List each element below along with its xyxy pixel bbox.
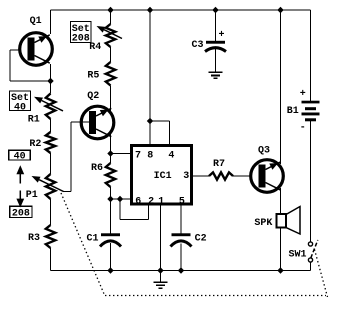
svg-text:IC1: IC1 xyxy=(154,171,172,182)
wire C3 to ground xyxy=(215,49,217,72)
resistor R3 xyxy=(46,225,55,248)
wire R7 to Q3 base xyxy=(233,175,259,177)
wire Q3 emitter to top rail xyxy=(280,10,282,164)
resistor R7 xyxy=(209,172,233,179)
svg-text:SW1: SW1 xyxy=(288,249,306,260)
svg-text:P1: P1 xyxy=(26,190,38,201)
capacitor C2 plate xyxy=(172,233,191,236)
wire R2-P1 link xyxy=(50,153,52,174)
wire top rail to R4 xyxy=(110,10,112,24)
wire IC1 pin 2 across xyxy=(120,219,149,221)
wire C2 to bottom rail xyxy=(180,244,182,271)
box 40 xyxy=(9,150,31,160)
svg-text:SPK: SPK xyxy=(254,218,272,229)
wire Q1 base feedback to node xyxy=(10,80,51,82)
wire IC1 pin 4 jog xyxy=(150,120,170,122)
capacitor C2 curved plate xyxy=(171,241,192,247)
junction node top rail / Q3 xyxy=(277,7,283,13)
potentiometer P1 xyxy=(46,174,55,199)
svg-text:4: 4 xyxy=(168,151,174,162)
dotted link horizontal xyxy=(105,295,326,297)
wire IC1 pin 4 up xyxy=(169,121,171,145)
svg-text:208: 208 xyxy=(72,34,90,45)
capacitor C3 curved plate xyxy=(205,48,226,52)
dotted link SW1 to case xyxy=(315,250,328,298)
wire IC1 pin 5 to C2 xyxy=(180,204,182,234)
junction node top rail / pin8 xyxy=(147,7,153,13)
svg-text:R1: R1 xyxy=(28,115,40,126)
svg-text:R5: R5 xyxy=(87,71,99,82)
wire R3 to bottom rail xyxy=(50,248,52,271)
wire IC1 pin 2 down xyxy=(119,199,121,220)
box Set 208 xyxy=(71,22,92,43)
svg-text:Q1: Q1 xyxy=(30,16,42,27)
wire SPK to bottom rail xyxy=(280,228,282,271)
svg-text:C1: C1 xyxy=(86,233,98,244)
wire Q3 collector to SPK xyxy=(280,188,282,215)
wire IC1 pin 2 up xyxy=(148,204,150,220)
svg-text:B1: B1 xyxy=(287,106,299,117)
svg-text:2: 2 xyxy=(148,196,154,207)
speaker SPK body xyxy=(277,214,287,228)
P1 wiper arrow xyxy=(39,180,63,192)
junction node Q2 collector / pin7 xyxy=(107,150,113,156)
junction node top rail / C3 xyxy=(212,7,218,13)
svg-text:R4: R4 xyxy=(89,42,101,53)
junction node pin8 / pin4 xyxy=(147,118,153,124)
wire right rail upper (to battery +) xyxy=(310,10,312,102)
box Set 40 xyxy=(10,91,31,111)
junction node top rail / R4 xyxy=(107,7,113,13)
trimmer R1 arrow xyxy=(42,101,63,111)
svg-text:+: + xyxy=(218,30,224,41)
wire R6 to pin6 node xyxy=(110,187,112,233)
range arrow down xyxy=(19,191,21,200)
speaker SPK horn xyxy=(286,207,300,235)
dotted link P1 to case xyxy=(61,193,105,295)
transistor Q2 xyxy=(81,106,114,139)
wire Q1 collector down to node xyxy=(50,64,52,94)
transistor Q1 xyxy=(20,33,53,66)
junction node pin6 / pin2 xyxy=(117,196,123,202)
ground under C3 xyxy=(209,71,223,73)
wire Q1 base feedback left xyxy=(10,49,28,51)
svg-text:R2: R2 xyxy=(29,139,41,150)
junction node bottom rail / SPK xyxy=(277,267,283,273)
svg-text:40: 40 xyxy=(14,151,26,162)
wire IC1 pin 6 xyxy=(111,198,132,200)
svg-text:3: 3 xyxy=(183,171,189,182)
wire Q3 base stub xyxy=(259,175,264,177)
range arrow up xyxy=(19,173,21,184)
capacitor C1 plate xyxy=(101,233,120,236)
battery B1 plate short bottom xyxy=(305,118,316,121)
wire SW1 to bottom rail xyxy=(310,262,312,271)
wire right rail lower (battery - to SW1) xyxy=(310,120,312,243)
wire Q1 base stub xyxy=(28,49,34,51)
battery B1 plate short xyxy=(305,107,316,110)
ground at IC1 pin 1 xyxy=(154,281,168,283)
resistor R4 (trimmer) xyxy=(106,24,115,47)
wire P1 wiper riser xyxy=(70,122,72,192)
junction node R6 / C1 xyxy=(107,196,113,202)
wire C1 to bottom rail xyxy=(110,243,112,271)
switch SW1 top terminal xyxy=(308,242,312,246)
junction node bottom rail / C2 xyxy=(178,267,184,273)
wire P1-R3 link xyxy=(50,199,52,225)
wire Q2 base xyxy=(71,121,95,123)
svg-text:Q3: Q3 xyxy=(258,146,270,157)
transistor Q3 xyxy=(251,160,284,193)
switch SW1 blade xyxy=(311,240,318,258)
wire IC1 pin 8 column xyxy=(149,10,151,145)
svg-text:R3: R3 xyxy=(28,233,40,244)
wire C3 from top rail xyxy=(215,10,217,42)
svg-text:7: 7 xyxy=(135,151,141,162)
wire wiper link horizontal xyxy=(63,191,71,193)
switch SW1 bottom terminal xyxy=(308,258,312,262)
capacitor C3 plate xyxy=(206,41,225,44)
svg-text:40: 40 xyxy=(14,102,26,113)
svg-text:6: 6 xyxy=(135,196,141,207)
resistor R5 xyxy=(106,62,115,86)
wire IC1 pin 7 xyxy=(111,153,132,155)
svg-text:5: 5 xyxy=(179,196,185,207)
junction node Q1 collector-base xyxy=(47,78,53,84)
svg-text:Q2: Q2 xyxy=(87,91,99,102)
box 208 xyxy=(10,206,32,217)
wire bottom rail xyxy=(51,270,311,272)
wire Q2 collector to node xyxy=(110,133,112,163)
svg-text:1: 1 xyxy=(158,196,164,207)
trimmer R4 arrow xyxy=(104,30,122,39)
junction node bottom rail / ground xyxy=(157,267,163,273)
battery B1 plate long top xyxy=(302,101,320,104)
wire R1-R2 link xyxy=(50,119,52,132)
wire R5 to Q2 emitter xyxy=(110,86,112,113)
svg-text:8: 8 xyxy=(147,151,153,162)
battery B1 plate long xyxy=(302,113,320,116)
svg-text:R6: R6 xyxy=(91,163,103,174)
junction node bottom rail / C1 xyxy=(107,267,113,273)
svg-text:R7: R7 xyxy=(213,159,225,170)
wire Q1 emitter to top rail xyxy=(50,10,52,34)
wire Q1 base feedback down xyxy=(9,50,11,81)
capacitor C1 curved plate xyxy=(100,241,121,247)
resistor R6 xyxy=(106,163,115,187)
svg-text:-: - xyxy=(300,122,306,133)
wire top rail xyxy=(51,9,311,11)
op-amp IC1 box xyxy=(132,146,192,205)
svg-text:+: + xyxy=(300,89,306,100)
resistor R1 (trimmer) xyxy=(46,94,55,120)
svg-text:C2: C2 xyxy=(195,234,207,245)
resistor R2 xyxy=(46,132,55,153)
wire IC1 pin 1 to ground xyxy=(160,204,162,282)
wire IC1 pin 3 to R7 xyxy=(193,175,209,177)
svg-text:C3: C3 xyxy=(191,40,203,51)
svg-text:208: 208 xyxy=(12,208,30,219)
wire R4-R5 link xyxy=(110,47,112,62)
